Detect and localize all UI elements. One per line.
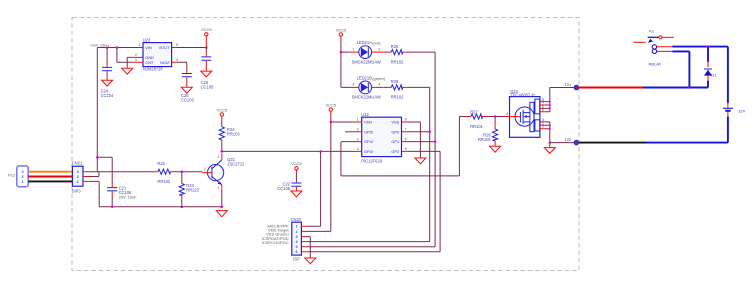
svg-text:7: 7 [405, 128, 407, 132]
wire CN22 pin1 to GP3 line [306, 151, 321, 226]
diode D1 [704, 47, 717, 81]
wire source rail to ground [549, 122, 551, 147]
wire NOIZ [176, 62, 187, 69]
svg-text:2: 2 [22, 175, 24, 179]
svg-text:3: 3 [357, 137, 359, 141]
wire drain rail to T21 [550, 88, 574, 112]
svg-text:2: 2 [217, 155, 219, 159]
terminal T22 [564, 137, 578, 145]
wire GP3 reset line [222, 150, 356, 152]
svg-text:GP3/: GP3/ [364, 149, 374, 154]
wire VCC5 to LED anodes [341, 40, 351, 87]
wire GP2 to CN22 pin6 [408, 151, 440, 251]
wire R27 to gate node [487, 116, 506, 118]
svg-text:(green): (green) [372, 76, 386, 81]
wire coil top rail to battery [672, 46, 728, 48]
node GP1/R25 [434, 140, 437, 143]
wire CNT tie [117, 48, 131, 63]
wire GP1 net vertical [434, 52, 436, 247]
svg-text:RR105: RR105 [478, 137, 491, 142]
ground U23 [122, 68, 133, 74]
connector P21 (external) [8, 166, 28, 187]
capacitor C26 [201, 48, 214, 90]
ground C25 [181, 87, 192, 93]
svg-text:R26: R26 [391, 79, 399, 84]
node T22 tap [549, 141, 552, 144]
svg-text:ICSPCLK/PGC: ICSPCLK/PGC [262, 240, 289, 245]
svg-text:VIN: VIN [145, 45, 152, 50]
svg-text:5: 5 [542, 108, 544, 112]
resistor R26 RR102 [383, 79, 407, 100]
resistor R22 RR102 [153, 161, 174, 184]
node source pins [549, 124, 551, 126]
svg-text:CN22: CN22 [291, 217, 302, 222]
node C21 branch [96, 156, 99, 159]
ISP pin name labels [262, 223, 290, 245]
svg-text:NJM2872F: NJM2872F [143, 67, 164, 72]
svg-text:LED21A: LED21A [357, 40, 373, 45]
svg-text:SIP3: SIP3 [72, 188, 82, 193]
node diode cathode tap [707, 45, 710, 48]
wire CN22 pin5 [306, 246, 435, 248]
svg-text:8: 8 [405, 118, 407, 122]
svg-text:CC106: CC106 [277, 186, 290, 191]
svg-text:U22: U22 [361, 112, 369, 117]
svg-text:RR223: RR223 [186, 188, 199, 193]
connector CN22 ISP [291, 217, 306, 261]
wire R23 to ground rail [181, 200, 183, 207]
svg-text:GP0: GP0 [391, 129, 400, 134]
wire to T22 [550, 142, 574, 144]
node emitter/rail [221, 206, 224, 209]
svg-text:2: 2 [378, 47, 380, 51]
svg-text:25V, 10uF: 25V, 10uF [119, 194, 138, 199]
svg-text:3: 3 [135, 58, 137, 62]
svg-text:RR103: RR103 [227, 131, 240, 136]
wire red supply [28, 176, 72, 178]
wire VCC5/VDD/CN22 pin2 vertical [330, 115, 332, 231]
LED LED21A (red) [350, 40, 383, 64]
svg-text:VSS: VSS [391, 120, 399, 125]
node C21/rail [111, 206, 114, 209]
connector CN21 SIP3 [72, 160, 89, 193]
svg-text:R27: R27 [470, 109, 478, 114]
ground R28 [490, 146, 501, 152]
node LED21A anode [340, 51, 343, 54]
resistor R28 RR105 [478, 117, 498, 147]
svg-text:VCC5: VCC5 [201, 27, 212, 32]
svg-text:TPCA8057-H: TPCA8057-H [510, 92, 534, 97]
battery 12V [723, 47, 746, 143]
svg-text:GP1: GP1 [391, 139, 399, 144]
svg-text:(red): (red) [372, 41, 381, 46]
svg-text:VOUT: VOUT [159, 45, 170, 50]
svg-text:SMCK22MUAW: SMCK22MUAW [352, 59, 381, 64]
power VCC5 at U22 [325, 102, 336, 115]
power VCC5 at VOUT [201, 27, 212, 47]
ground CN22 pin3 [305, 258, 316, 264]
wire red T21 [579, 87, 643, 89]
wire CN22 pin3 to ground [306, 237, 311, 258]
svg-text:4: 4 [506, 112, 508, 116]
wire CN21 pin1 to ground rail [89, 181, 99, 206]
dashed module border [72, 18, 579, 271]
capacitor C24 [101, 48, 114, 98]
power VCC5 above R24 [216, 107, 227, 127]
wire VDD [331, 121, 356, 123]
node CNT tie tap [116, 46, 119, 49]
ground U22 VSS [415, 158, 426, 164]
svg-text:RR102: RR102 [391, 59, 404, 64]
svg-text:SMCK22MUAW: SMCK22MUAW [352, 95, 381, 100]
svg-text:6: 6 [405, 137, 407, 141]
node R27/R28/gate [494, 115, 497, 118]
svg-text:3: 3 [352, 83, 354, 87]
capacitor C21 CC106 [97, 157, 137, 207]
wire VOUT [176, 47, 206, 49]
svg-text:CC104: CC104 [101, 93, 114, 98]
relay K1 [633, 28, 674, 66]
svg-text:RR102: RR102 [157, 179, 170, 184]
svg-text:1: 1 [296, 225, 298, 229]
svg-text:CNT: CNT [145, 60, 154, 65]
svg-text:2: 2 [357, 128, 359, 132]
wire CN22 pin4 [306, 241, 430, 243]
terminal T21 [564, 82, 578, 90]
svg-text:T22: T22 [564, 137, 572, 142]
svg-text:GP5/: GP5/ [364, 129, 374, 134]
resistor R23 RR223 [179, 172, 200, 200]
power VCC5 at LEDs [336, 27, 347, 40]
wire GP1 [408, 141, 435, 143]
wire R26 to GP0 vertical [407, 86, 430, 88]
wire CN21 pin3 to R22 [89, 171, 154, 173]
wire VIN vertical down to CN21 [96, 48, 98, 172]
wire GP0 [408, 131, 430, 133]
svg-text:RR102: RR102 [391, 95, 404, 100]
svg-text:1: 1 [542, 125, 544, 129]
svg-text:3: 3 [77, 170, 79, 174]
svg-text:3: 3 [296, 235, 298, 239]
node R23/rail [181, 206, 184, 209]
resistor R24 RR103 [219, 127, 240, 140]
node VOUT junction [205, 46, 208, 49]
svg-text:4: 4 [378, 83, 380, 87]
svg-text:VCC5: VCC5 [325, 102, 336, 107]
ground Q22 source [544, 148, 555, 154]
node VDD tap [330, 121, 333, 124]
svg-text:RR101: RR101 [470, 124, 483, 129]
svg-text:4: 4 [176, 58, 178, 62]
wire diode anode to junction [689, 81, 708, 88]
wire R22 to base node [175, 171, 203, 173]
svg-text:1: 1 [139, 43, 141, 47]
wire CN21 pin2 tie to VIN [89, 172, 99, 177]
ground C22 [291, 191, 302, 197]
wire battery minus to T22 [646, 142, 728, 144]
wire LED21A anode [341, 51, 351, 53]
svg-text:5: 5 [296, 245, 298, 249]
resistor R25 RR102 [383, 44, 407, 65]
svg-text:VCC5: VCC5 [336, 27, 347, 32]
svg-text:3: 3 [22, 170, 24, 174]
wire black T22 [579, 142, 646, 144]
wire ground rail [99, 206, 222, 208]
svg-text:5: 5 [176, 43, 178, 47]
capacitor C22 CC106 [277, 181, 301, 191]
node C24 tap [106, 46, 109, 49]
svg-text:CC105: CC105 [201, 84, 214, 89]
node R24/Q21/GP3 [221, 150, 224, 153]
transistor Q22 TPCA8057-H [505, 89, 545, 137]
svg-text:U23: U23 [143, 38, 151, 43]
node GP0/R26 [428, 131, 431, 134]
resistor R27 RR101 [459, 109, 486, 129]
svg-text:1: 1 [77, 180, 79, 184]
wire LED21B anode [350, 86, 358, 88]
wire black ground [28, 180, 72, 182]
power VCC5 at C22 [291, 161, 302, 182]
svg-text:CC103: CC103 [181, 97, 194, 102]
wire blue T21 to relay [643, 87, 689, 89]
svg-text:RELAY: RELAY [649, 62, 662, 67]
wire R24 to collector node [221, 140, 223, 151]
svg-text:2: 2 [135, 53, 137, 57]
svg-text:3: 3 [204, 168, 206, 172]
ground C26 [201, 71, 212, 77]
svg-text:D1: D1 [711, 73, 717, 78]
svg-text:NOIZ: NOIZ [160, 60, 170, 65]
wire CN22 pin2 [306, 230, 331, 232]
svg-text:1: 1 [357, 118, 359, 122]
transistor Q21 2SC2712 [202, 154, 245, 191]
svg-text:VDD: VDD [364, 120, 372, 125]
svg-text:K1: K1 [649, 28, 655, 33]
svg-text:4: 4 [357, 147, 359, 151]
op-amp U22 PIC12F629 [355, 112, 407, 164]
node coil bottom junction [688, 86, 691, 89]
svg-text:VCC5: VCC5 [291, 161, 302, 166]
wire GP5 stub [345, 131, 355, 133]
capacitor C25 [181, 69, 194, 102]
wire GP4 to R27 staircase [341, 117, 460, 176]
svg-text:2SC2712: 2SC2712 [227, 162, 245, 167]
svg-text:12V: 12V [738, 109, 745, 114]
svg-text:1: 1 [22, 180, 24, 184]
svg-text:2: 2 [77, 175, 79, 179]
wire R25 to GP1 vertical [407, 51, 435, 53]
svg-text:PIC12F629: PIC12F629 [361, 159, 382, 164]
ground C24 [102, 80, 113, 86]
svg-text:1: 1 [352, 47, 354, 51]
ground Q21 emitter [216, 211, 227, 217]
node CN22 pin1 tap [319, 150, 322, 153]
svg-text:GP2: GP2 [391, 149, 399, 154]
wire drain pins to rail [545, 102, 550, 112]
wire coil bottom vertical [672, 51, 689, 87]
wire orange signal [28, 171, 72, 173]
svg-text:1: 1 [217, 186, 219, 190]
node drain pins [549, 101, 551, 103]
svg-text:2: 2 [296, 230, 298, 234]
wire GND pin to ground [127, 57, 131, 68]
node R22/R23 [181, 170, 184, 173]
svg-text:T21: T21 [564, 82, 572, 87]
svg-text:R22: R22 [157, 161, 165, 166]
wire GP0 net vertical [429, 87, 431, 241]
wire VSS to ground [408, 122, 421, 158]
svg-text:6: 6 [296, 250, 298, 254]
wire emitter to ground rail [221, 190, 223, 207]
svg-text:ISP: ISP [293, 256, 300, 261]
wire CN22 pin6 [306, 251, 440, 253]
svg-text:VCC5: VCC5 [216, 107, 227, 112]
svg-text:GP4/: GP4/ [364, 139, 374, 144]
svg-text:LED21B: LED21B [357, 75, 373, 80]
svg-text:P21: P21 [8, 173, 16, 178]
wire VIN horizontal [97, 47, 138, 49]
op-amp U23 NJM2872F regulator [131, 38, 178, 72]
LED LED21B (green) [352, 75, 386, 99]
svg-text:R25: R25 [391, 44, 399, 49]
svg-text:CN21: CN21 [72, 160, 83, 165]
svg-text:5: 5 [405, 147, 407, 151]
wire source pins to rail [545, 122, 550, 129]
